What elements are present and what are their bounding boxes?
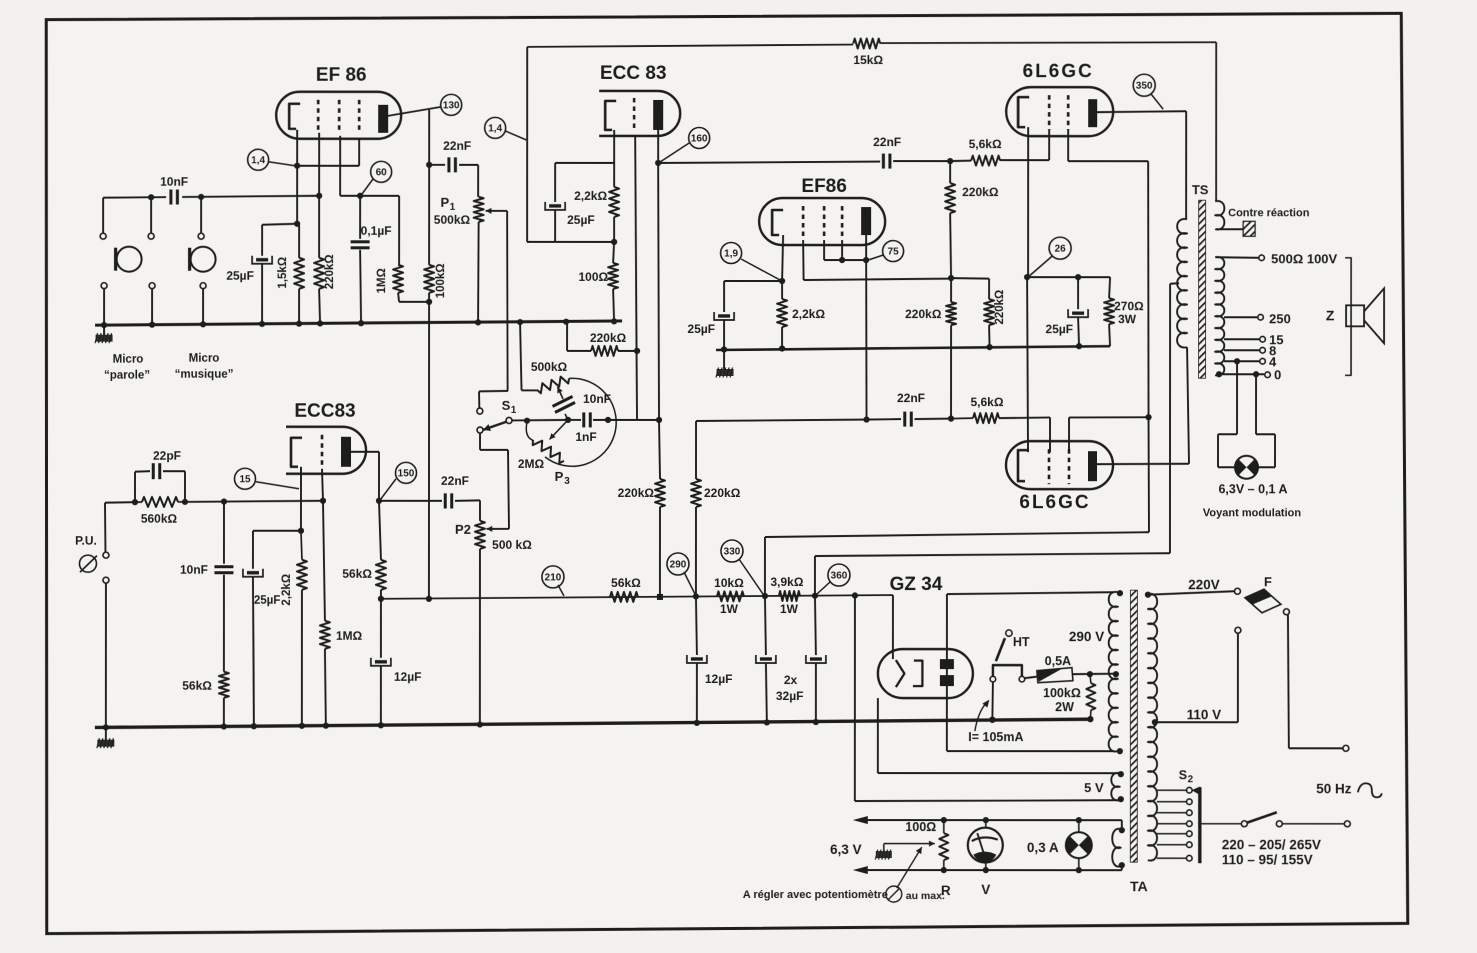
wire anode down to 22nF node (428, 110, 430, 165)
capacitor 10nF P3 (553, 396, 576, 412)
wire lamp right from tap0 (1255, 374, 1257, 434)
wire 110V to primary tap (1155, 721, 1238, 723)
svg-text:P.U.: P.U. (75, 534, 97, 548)
capacitor 32uF no2 (806, 655, 826, 663)
node anode 150 (376, 498, 382, 504)
resistor 15k (853, 39, 880, 49)
wire cathodes 6L6 common (1027, 277, 1028, 452)
wire (915, 418, 952, 421)
wire B+ into GZ34 cathode (892, 595, 894, 659)
label circle 1,4 no2 (485, 117, 506, 138)
svg-text:5,6kΩ: 5,6kΩ (969, 137, 1002, 151)
wire (1121, 865, 1123, 870)
wire down to P1 (477, 165, 479, 197)
wire anode to 130 label (388, 107, 441, 116)
label circle 130 (441, 94, 462, 115)
wire to 220k load (659, 420, 660, 479)
S2 selector bar (1198, 787, 1201, 863)
ground symbol contre reaction (1243, 221, 1255, 236)
TA core (1130, 590, 1137, 862)
node rail HT (989, 717, 995, 723)
wire S2 tap 1 (1157, 789, 1186, 791)
wire (135, 470, 150, 473)
node 22nF drive right (948, 416, 954, 422)
svg-text:S: S (1179, 768, 1187, 782)
6L6 no1 g2 lead (1067, 130, 1069, 161)
wire jack1 ground (103, 289, 105, 325)
wire lamp bottom (1078, 858, 1080, 870)
node anode 160 (655, 160, 661, 166)
svg-text:3,9kΩ: 3,9kΩ (770, 575, 803, 589)
node anode load junction (656, 417, 662, 423)
ground rail upper first stage (95, 321, 622, 326)
wire to 500k (522, 389, 538, 391)
svg-text:5,6kΩ: 5,6kΩ (971, 395, 1004, 409)
capacitor 25uF ECC83 no2 (243, 569, 263, 577)
wire 220k divider top (949, 161, 951, 183)
g3 lead down (841, 240, 843, 260)
wire 22nF to P2 (455, 499, 480, 502)
node divider mid (948, 275, 954, 281)
wire to 220k bias (951, 277, 989, 280)
wire P1 wiper (492, 210, 507, 212)
wire 220k to rail (319, 289, 320, 324)
S1 lower contact (477, 427, 483, 433)
wire 360 up to CT line B (814, 556, 816, 596)
ground rail main lower (95, 719, 1092, 728)
wire cathode bypass bottom (527, 241, 614, 243)
wire tap 500ohm (1216, 256, 1258, 259)
resistor 270ohm 3W (1104, 298, 1114, 324)
node screen 60 (357, 193, 363, 199)
tube ECC83 no2 envelope (286, 427, 366, 474)
wire g1 lead 6L6 no2 (1049, 417, 1051, 452)
resistor 5,6k no2 (973, 413, 999, 423)
wire screen bus to line A (1147, 417, 1150, 532)
wire lower contact down (479, 433, 481, 450)
pointer 290 (684, 572, 695, 594)
PU terminal lower (103, 577, 109, 583)
svg-text:160: 160 (691, 133, 708, 144)
capacitor 12uF (371, 658, 391, 666)
node ground rail 2 (986, 344, 992, 350)
svg-text:100kΩ: 100kΩ (1043, 686, 1081, 700)
wire 220V (1148, 591, 1234, 595)
node NFB on 210 line (426, 596, 432, 602)
6L6 no2 grid g1 (1048, 449, 1051, 484)
ECC83 no2 grid lead (322, 469, 323, 501)
wire g2 lead 6L6 no2 (1068, 417, 1070, 452)
svg-text:S: S (502, 398, 511, 413)
wire (1274, 434, 1276, 467)
node HV bottom (1117, 748, 1123, 754)
svg-text:32µF: 32µF (776, 689, 804, 703)
wire (1217, 434, 1219, 467)
capacitor 32uF no1 (756, 655, 776, 663)
resistor 2M P3 lower (533, 440, 564, 463)
svg-text:1W: 1W (780, 602, 799, 616)
wire 32uF no1 to rail (766, 663, 767, 723)
label circle 1,4 no1 (248, 149, 269, 170)
node grid ECC83 no2 (320, 498, 326, 504)
wire HT left to rail (991, 682, 994, 720)
label circle 160 (689, 127, 710, 148)
wire to 25uF no4 (253, 530, 301, 532)
wire jack3 tip (200, 197, 202, 233)
6L6 no2 cathode (1018, 450, 1029, 481)
P2 wiper arrow (486, 526, 495, 532)
capacitor 0,1uF (351, 242, 370, 248)
ground stem (723, 350, 725, 369)
svg-text:F: F (1264, 574, 1272, 589)
ECC83 no2 cathode (291, 438, 302, 467)
node P3 wiper (565, 417, 571, 423)
svg-text:GZ 34: GZ 34 (890, 574, 943, 595)
capacitor 22nF no2 (883, 154, 890, 169)
svg-text:2: 2 (1188, 774, 1194, 785)
P1 wiper arrow (486, 208, 493, 214)
ground stem lower (105, 727, 107, 739)
wire 2,2k top (613, 163, 615, 187)
svg-text:1,4: 1,4 (251, 155, 265, 166)
svg-text:220kΩ: 220kΩ (962, 185, 999, 199)
wire 12uF no2 to rail (696, 663, 698, 723)
TA 6,3V winding (1112, 829, 1121, 867)
wire (1218, 433, 1237, 435)
wire plate line to 290V winding (947, 592, 1114, 594)
svg-text:220V: 220V (1188, 577, 1220, 592)
label circle 26 (1049, 237, 1071, 259)
wire down to P2 wiper (508, 450, 509, 529)
node meter top (983, 817, 989, 823)
wire 220k leak left (566, 323, 568, 351)
TS secondary winding (1215, 257, 1224, 376)
capacitor 12uF no2 (687, 655, 707, 663)
svg-text:25µF: 25µF (687, 322, 715, 336)
svg-text:22nF: 22nF (897, 391, 925, 405)
resistor 220k divider upper (945, 183, 955, 213)
capacitor 10nF mic (171, 190, 178, 205)
HT contact right (1019, 676, 1025, 682)
wire lamp left from tap4 (1236, 361, 1238, 434)
wire 32uF no2 top (815, 596, 816, 655)
EF86 no2 anode (861, 207, 871, 235)
pickup symbol (79, 555, 97, 572)
voltmeter V (968, 828, 1003, 863)
wire P2 bottom to rail (479, 549, 481, 727)
label circle 210 (542, 566, 564, 588)
ECC83 no1 cathode (605, 101, 616, 130)
EF86 no2 grid g3 (841, 206, 844, 240)
capacitor 1nF (584, 412, 591, 427)
svg-text:5 V: 5 V (1084, 780, 1104, 795)
node primary tap 110V (1152, 719, 1158, 725)
wire to 0,1uF (359, 196, 361, 239)
svg-text:Voyant modulation: Voyant modulation (1203, 507, 1301, 519)
node 22nF no1 (426, 162, 432, 168)
node 1nF right (605, 417, 611, 423)
wire 22nF to 5,6k (893, 160, 950, 162)
wire B+ from 5V winding (854, 595, 856, 801)
svg-text:2,2kΩ: 2,2kΩ (574, 189, 607, 203)
ECC83 no2 anode (341, 437, 351, 467)
tube GZ34 envelope (878, 649, 973, 698)
wire to mains terminal (1289, 747, 1343, 749)
speaker Z (1346, 288, 1384, 343)
ECC83 no1 anode (653, 100, 663, 130)
capacitor 22nF top left (449, 157, 456, 172)
HT contact left (990, 676, 996, 682)
svg-text:25µF: 25µF (226, 269, 254, 283)
capacitor 22nF to P2 (445, 493, 452, 508)
wire 25uF to rail (261, 264, 263, 324)
wire divider to grid line 6L6 no2 (950, 325, 952, 418)
svg-text:I= 105mA: I= 105mA (968, 730, 1023, 744)
wire meter bottom (985, 864, 987, 871)
wire g1 row (804, 279, 952, 281)
svg-text:6L6GC: 6L6GC (1019, 492, 1090, 513)
svg-text:350: 350 (1136, 81, 1153, 92)
svg-text:100Ω: 100Ω (905, 820, 936, 834)
wire top feedback run (527, 44, 853, 47)
HT switch bracket (993, 665, 1022, 677)
svg-text:P2: P2 (455, 522, 471, 537)
label circle 150 (395, 462, 416, 483)
wire g3 down (358, 140, 360, 166)
svg-text:V: V (981, 882, 990, 897)
node grid leak (634, 348, 640, 354)
svg-text:100kΩ: 100kΩ (435, 263, 447, 298)
wire 32uF no1 top (765, 596, 766, 655)
wire GZ34 filament to 5V (877, 698, 879, 773)
pointer 160 (660, 143, 689, 162)
wire 12uF no2 top (696, 596, 697, 655)
wire to fuse 0,5A (1025, 677, 1037, 679)
label circle 1,9 (721, 242, 742, 263)
wire P1 bottom to rail (477, 222, 480, 324)
S1 common terminal (506, 417, 512, 423)
pointer 330 (739, 559, 763, 594)
wire jack2 tip (150, 197, 152, 232)
fuse 0,5A (1037, 668, 1073, 683)
jack micro musique (190, 247, 216, 272)
svg-text:10nF: 10nF (180, 563, 208, 577)
svg-text:TS: TS (1192, 182, 1209, 197)
pointer 1,9 (741, 259, 780, 280)
lamp 0,3A (1066, 832, 1092, 858)
wire 22nF to P1 (459, 164, 478, 166)
wire 5,6k to g1 6L6 no2 (999, 416, 1050, 419)
node cathode NFB junction (611, 239, 617, 245)
TS core (1199, 200, 1206, 378)
resistor 1,5k (294, 258, 304, 289)
terminal 220V (1234, 588, 1240, 594)
svg-text:1: 1 (450, 202, 456, 213)
label circle 75 (883, 241, 904, 262)
svg-text:130: 130 (443, 100, 460, 111)
svg-text:6L6GC: 6L6GC (1023, 61, 1094, 82)
wire hum to pot wiper (884, 841, 935, 847)
S2 contact arrow (1193, 787, 1200, 794)
wire g2 to 60 node (340, 195, 360, 197)
svg-text:250: 250 (1269, 311, 1291, 326)
EF86 no1 grid g1 (317, 100, 320, 133)
wire to 100ohm (613, 242, 614, 263)
wire (950, 278, 952, 302)
ground symbol EF86 no2 (716, 367, 734, 377)
terminal 250 (1258, 314, 1264, 320)
svg-text:1MΩ: 1MΩ (376, 268, 388, 293)
wire 0,1uF to rail (360, 250, 361, 324)
terminal S2 tap 1 (1187, 787, 1193, 793)
wire divider middle (950, 213, 951, 278)
terminal 4 (1260, 358, 1266, 364)
node anode EF86 no2 row (863, 416, 869, 422)
wire PU to 560k (105, 501, 135, 504)
ECC83 no2 cathode lead (300, 467, 302, 531)
wire (950, 160, 971, 163)
wire 1M to 100k junction (399, 301, 429, 303)
svg-text:2x: 2x (784, 673, 798, 687)
ground stem upper (103, 325, 105, 335)
node mic bus (198, 194, 204, 200)
svg-text:150: 150 (398, 468, 415, 479)
wire 1nF out (593, 419, 659, 421)
pointer 1,4 no2 (505, 131, 526, 140)
wire 290 node up to EF86 anode line (695, 421, 697, 479)
node mic2 (148, 194, 154, 200)
wire anode lower to winding bottom (946, 686, 948, 751)
wire screen line A (765, 532, 1149, 537)
wire to 1,5k (298, 224, 300, 258)
wire to 22nF (429, 164, 445, 166)
pot symbol in note (886, 886, 902, 902)
wire to 25uF no3 (724, 280, 782, 282)
node 6,3V top (1119, 827, 1125, 833)
node 360 (812, 593, 818, 599)
svg-text:10nF: 10nF (160, 175, 188, 189)
resistor 2,2k EF86 no2 (777, 299, 787, 327)
wire between anode plates (946, 669, 948, 675)
node 6,3V bottom (1119, 862, 1125, 868)
EF86 no1 cathode lead (296, 130, 298, 166)
node tap 0 (1253, 371, 1259, 377)
wire S2 tap 2 (1157, 801, 1186, 803)
wire 12uF to rail (380, 666, 382, 727)
pointer 210 (558, 585, 564, 596)
wire 6,3V upper (866, 819, 1122, 821)
resistor 560k (142, 497, 178, 507)
label circle 330 (721, 540, 743, 562)
GZ34 filament bracket (913, 661, 923, 687)
potentiometer P2 500k (475, 521, 485, 549)
capacitor 22nF drive (905, 412, 912, 427)
jack1 sleeve terminal (101, 283, 107, 289)
wire feedback down to 210V line (428, 302, 430, 599)
ECC83 no1 anode lead (657, 130, 659, 163)
ECC83 no2 grid (321, 435, 324, 469)
wire 6L6 no1 cathode down to 26 node (1027, 127, 1029, 277)
ECC83 no1 grid (633, 98, 636, 132)
svg-text:12µF: 12µF (394, 670, 422, 684)
wire 10nF to wiper node (565, 414, 568, 420)
resistor 100k (424, 265, 434, 293)
wire 5V top (878, 772, 1121, 774)
node rail 100k (1087, 716, 1093, 722)
wire 2,2k to rail (301, 590, 303, 727)
tube 6L6GC no2 envelope (1006, 441, 1113, 489)
wire hum ground (883, 844, 885, 852)
wire 110V down (1237, 633, 1239, 722)
svg-text:Contre réaction: Contre réaction (1228, 207, 1310, 219)
svg-text:270Ω: 270Ω (1114, 299, 1144, 313)
capacitor 10nF no2 (214, 567, 233, 573)
node feedback junction (426, 299, 432, 305)
svg-text:Micro: Micro (189, 353, 220, 365)
wire g2 to screen bus (1069, 416, 1149, 418)
wire 25uF to rail (253, 577, 254, 727)
terminal after fuse (1283, 609, 1289, 615)
wire 32uF no2 to rail (815, 663, 817, 722)
svg-text:A régler avec potentiomètre: A régler avec potentiomètre (743, 889, 888, 901)
node 330 (762, 593, 768, 599)
svg-text:500 kΩ: 500 kΩ (492, 538, 532, 552)
node tap 4 (1234, 358, 1240, 364)
wire to 220k (567, 350, 591, 352)
node tie g3 (839, 257, 845, 263)
terminal S2 tap 7 (1186, 855, 1192, 861)
EF86 no1 g1 lead (318, 133, 320, 196)
node rail 25uF (721, 346, 727, 352)
svg-text:60: 60 (376, 167, 388, 178)
wire tap 15 (1224, 338, 1259, 340)
EF86 no2 cathode (772, 210, 783, 235)
wire (1121, 820, 1123, 830)
wire wiper corner (479, 390, 508, 393)
6L6 no1 anode lead (1097, 111, 1186, 112)
resistor 100k 2W (1086, 683, 1095, 710)
svg-text:330: 330 (724, 546, 741, 557)
wire 100ohm to rail (613, 289, 614, 321)
EF86 no2 grid g2 (823, 206, 826, 240)
svg-text:P: P (555, 469, 564, 484)
wire 1M bottom (398, 293, 399, 302)
wire S1 to network (512, 419, 568, 422)
wire (1256, 433, 1275, 435)
terminal S2 tap 5 (1187, 831, 1193, 837)
node 5V top (1118, 771, 1124, 777)
svg-text:0,1µF: 0,1µF (361, 224, 392, 238)
wire S2 tap 3 (1157, 812, 1186, 814)
jack2 tip terminal (148, 233, 154, 239)
wire 10nF to 56k (223, 575, 225, 672)
wire P2 top (479, 500, 481, 520)
pointer 360 (817, 582, 830, 594)
resistor 56k B+ (610, 592, 638, 602)
ground symbol hum pot (875, 850, 892, 860)
potentiometer P1 500k (474, 197, 484, 222)
node NFB junction S1 (524, 418, 530, 424)
wire top run to TS (880, 42, 1216, 43)
node g1 input (316, 193, 322, 199)
wire 2,2k to ground rail (781, 327, 783, 349)
svg-text:500Ω 100V: 500Ω 100V (1271, 251, 1337, 266)
node square at 210 line (657, 594, 663, 600)
wire 25uF top (261, 225, 263, 256)
GZ34 anode upper (940, 659, 954, 669)
svg-text:0: 0 (1274, 367, 1281, 382)
wire lamp top (1078, 820, 1080, 832)
